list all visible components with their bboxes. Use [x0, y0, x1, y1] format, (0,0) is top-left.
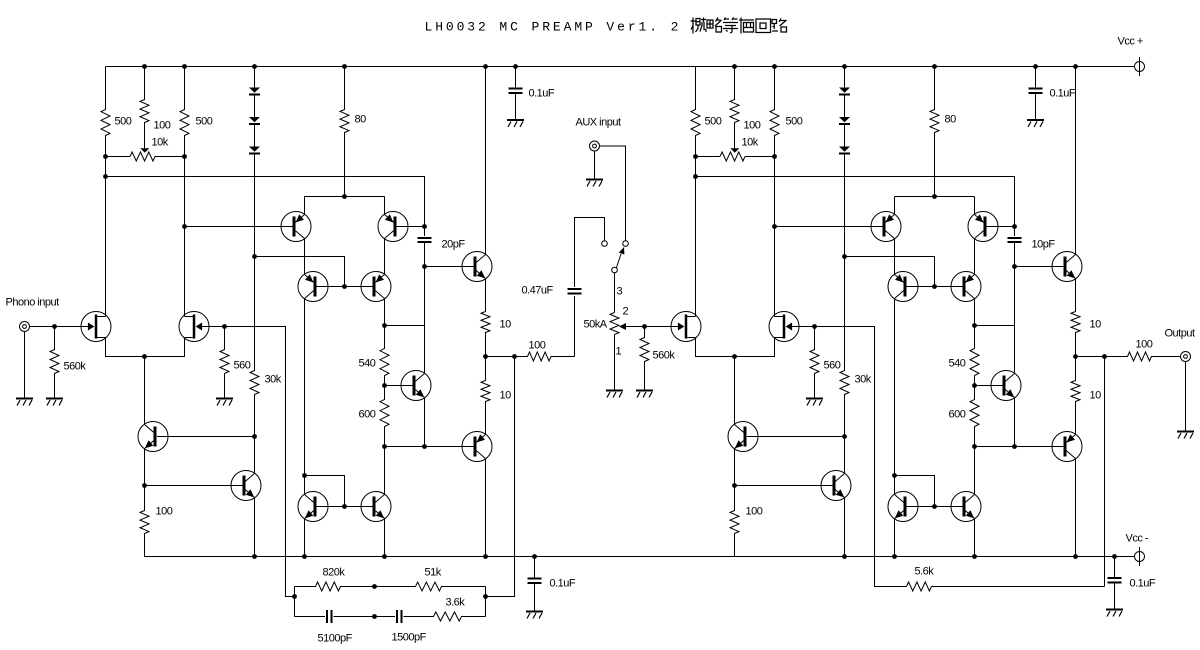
node T5T6 base (R)	[932, 504, 937, 509]
ground (aux)	[586, 180, 603, 187]
node rail-cap top (L)	[513, 64, 518, 69]
label 0.1uF top R	[1050, 88, 1076, 100]
label 560 (L)	[234, 360, 251, 372]
node 80-cluster (R)	[932, 194, 937, 199]
node 540 top (L)	[382, 323, 387, 328]
svg-text:100: 100	[154, 120, 171, 132]
wire T2-T4 (R)	[974, 239, 976, 275]
ground (0.1uF bottom L)	[526, 612, 543, 619]
svg-text:1500pF: 1500pF	[392, 632, 427, 644]
wire base link (R)	[895, 476, 935, 507]
wire T3 base (R)	[907, 286, 935, 288]
node rail-500 (R)	[732, 64, 737, 69]
label 10 upper (L)	[500, 319, 512, 331]
wire aux to switch	[600, 146, 626, 241]
wire wiper to J3	[645, 326, 680, 328]
resistor 560 (R)	[810, 327, 819, 398]
terminal Vcc+	[1135, 57, 1145, 76]
wire 0.1uF top (L)	[515, 67, 517, 120]
label Phono input	[6, 297, 60, 309]
wire T3 base (L)	[317, 286, 345, 288]
wire T5 base (R)	[907, 506, 935, 508]
svg-text:100: 100	[746, 506, 763, 518]
wire 5100pF leads	[295, 616, 375, 618]
resistor 80 (R)	[930, 67, 939, 197]
capacitor 0.1uF top (R)	[1029, 89, 1043, 94]
wire J2 drain (L)	[184, 157, 186, 317]
wire aux gnd	[594, 151, 596, 179]
wire T5 collector (L)	[304, 476, 306, 495]
node tail (L)	[142, 354, 147, 359]
transistor Q9 output pnp (L)	[462, 432, 492, 462]
label 5100pF	[318, 633, 353, 645]
switch contact B	[623, 241, 629, 247]
ground (0.1uF top L)	[507, 120, 524, 127]
label 560k phono	[64, 361, 87, 373]
node 600 bottom (L)	[382, 444, 387, 449]
wire phono-gate	[30, 326, 89, 328]
resistor 560 (L)	[220, 327, 229, 398]
switch pole C	[612, 267, 618, 273]
wire 1500pF lead	[375, 616, 396, 618]
resistor 5.6k	[907, 582, 1105, 591]
wire 0.1uF bottom (L)	[534, 557, 536, 611]
node T6e-rail (R)	[972, 554, 977, 559]
wire out to pot (L)	[486, 352, 575, 361]
resistor 100 (L bottom)	[140, 486, 149, 557]
pot wiper arrow	[619, 323, 645, 330]
wire T2 emitter (L)	[384, 197, 386, 215]
transistor T6 npn (R)	[951, 492, 981, 522]
resistor 500 (L right)	[180, 67, 189, 157]
wire T5 emitter (L)	[304, 519, 306, 557]
node J2gate-560	[222, 324, 227, 329]
svg-text:10: 10	[500, 319, 512, 331]
node T3T4 base (L)	[342, 284, 347, 289]
node pot-right (L)	[182, 154, 187, 159]
wire comp cap leads (L)	[424, 227, 426, 267]
label 500 left (L)	[115, 116, 132, 128]
svg-text:600: 600	[949, 409, 966, 421]
label Vcc+	[1118, 36, 1143, 48]
svg-text:500: 500	[786, 116, 803, 128]
label 1500pF	[392, 632, 427, 644]
svg-text:80: 80	[945, 114, 957, 126]
node T3T4 base (R)	[932, 284, 937, 289]
label 0.47uF	[522, 285, 554, 297]
label 100 bottom (R)	[746, 506, 763, 518]
node drain-rail (R)	[693, 174, 698, 179]
node rail-diode (L)	[252, 64, 257, 69]
wire T5 emitter (R)	[894, 519, 896, 557]
switch contact A	[602, 241, 608, 247]
wire top Vcc+ rail	[106, 66, 1135, 68]
wire Q9 base (L)	[385, 446, 474, 448]
svg-text:10pF: 10pF	[1032, 239, 1056, 251]
svg-text:560k: 560k	[64, 361, 87, 373]
wire fb tap (L)	[486, 357, 515, 597]
transistor Q1 current source (L)	[138, 422, 168, 452]
resistor 500 (R right)	[770, 67, 779, 157]
transistor Q7 vas (L)	[401, 371, 431, 401]
terminal Vcc-	[1135, 547, 1145, 566]
svg-text:30k: 30k	[855, 374, 872, 386]
node out-tap (R)	[1102, 354, 1107, 359]
node output (R)	[1073, 354, 1078, 359]
label 10 upper (R)	[1090, 319, 1102, 331]
transistor Q8 output npn (R)	[1052, 252, 1082, 282]
wire T2 base (L)	[397, 226, 425, 228]
ground (560 R)	[806, 399, 823, 406]
wire J1 drain (L)	[105, 157, 107, 317]
label pin 3	[617, 286, 623, 298]
node 80-cluster (L)	[342, 194, 347, 199]
wire Q8 base (L)	[425, 266, 474, 268]
wire 0.1uF bottom (R)	[1114, 557, 1116, 609]
label 80 (L)	[355, 114, 367, 126]
transistor T6 npn (L)	[361, 492, 391, 522]
resistor 600 (R)	[970, 386, 979, 447]
wire T6 collector (L)	[384, 447, 386, 495]
node rail-diode (R)	[842, 64, 847, 69]
wire Q8 collector (L)	[485, 67, 487, 255]
node pot-right (R)	[772, 154, 777, 159]
wire Q2 emitter (L)	[254, 498, 256, 557]
svg-text:100: 100	[744, 120, 761, 132]
label pin 2	[623, 306, 629, 318]
resistor 500 (L left)	[101, 67, 110, 157]
label 100 bottom (L)	[156, 506, 173, 518]
resistor 540 (R)	[970, 326, 979, 386]
svg-text:0.1uF: 0.1uF	[550, 578, 576, 590]
node out-tap (L)	[512, 354, 517, 359]
label 3.6k	[446, 597, 466, 609]
wire J1 drain (R)	[695, 157, 697, 317]
diode D1 (R)	[839, 88, 850, 95]
wire J1 source (R)	[696, 338, 775, 357]
svg-text:10k: 10k	[742, 137, 759, 149]
resistor 10 lower (L)	[481, 357, 490, 435]
node tail (R)	[732, 354, 737, 359]
svg-text:0.1uF: 0.1uF	[529, 88, 555, 100]
node rail-500b (L)	[182, 64, 187, 69]
svg-text:LH0032 MC PREAMP Ver1. 2: LH0032 MC PREAMP Ver1. 2	[425, 20, 682, 35]
svg-text:540: 540	[949, 358, 966, 370]
wire diode column (R)	[844, 67, 846, 257]
switch blade	[617, 247, 625, 268]
resistor 500 (R left)	[691, 67, 700, 157]
resistor 10 upper (R)	[1071, 279, 1080, 357]
label 600 (R)	[949, 409, 966, 421]
transistor Q2 mirror (L)	[231, 471, 261, 501]
svg-text:500: 500	[196, 116, 213, 128]
diode D2 (L)	[249, 117, 260, 124]
label 560k pot	[653, 350, 676, 362]
label 100 top (L)	[154, 120, 171, 132]
svg-text:820k: 820k	[323, 567, 346, 579]
resistor 10 lower (R)	[1071, 357, 1080, 435]
node T5e-rail (R)	[892, 554, 897, 559]
svg-text:5100pF: 5100pF	[318, 633, 353, 645]
wire Q2 base (L)	[145, 485, 243, 487]
svg-text:Phono input: Phono input	[6, 297, 60, 309]
wire T4 base (L)	[345, 286, 373, 288]
potentiometer 50kA body	[610, 313, 619, 335]
wire J4 gate (R)	[791, 326, 815, 328]
label 500 right (R)	[786, 116, 803, 128]
node Q1base-30k (R)	[842, 434, 847, 439]
transistor Q7 vas (R)	[991, 371, 1021, 401]
wire J1 source (L)	[106, 338, 185, 357]
resistor 30k (R)	[840, 257, 849, 437]
label 10k (R)	[742, 137, 759, 149]
node T5 coll link (R)	[892, 473, 897, 478]
wire Q2 emitter (R)	[844, 498, 846, 557]
wire cluster top (R)	[895, 196, 975, 198]
svg-text:10: 10	[1090, 319, 1102, 331]
wire Q9 base (R)	[975, 446, 1064, 448]
wire T6 collector (R)	[974, 447, 976, 495]
label 540 (R)	[949, 358, 966, 370]
node pot-left (L)	[103, 154, 108, 159]
wire T4 collector (L)	[384, 299, 386, 326]
wire tail down (L)	[144, 357, 146, 425]
wire T3 collector (R)	[894, 299, 896, 476]
node J4gate-560 (R)	[812, 324, 817, 329]
ground (560 L)	[216, 399, 233, 406]
label Vcc-	[1126, 533, 1149, 545]
ground (output)	[1177, 432, 1194, 439]
node T5T6 base (L)	[342, 504, 347, 509]
node output (L)	[483, 354, 488, 359]
svg-text:10k: 10k	[152, 137, 169, 149]
resistor 100 (R top)	[730, 67, 739, 149]
wire tail down (R)	[734, 357, 736, 425]
node J2 drain-base (L)	[182, 224, 187, 229]
wire Q8 base (R)	[1015, 266, 1064, 268]
potentiometer 10k (R)	[696, 148, 775, 161]
svg-text:100: 100	[529, 340, 546, 352]
wire T6 emitter (R)	[974, 519, 976, 557]
wire Q2 base (R)	[735, 485, 833, 487]
capacitor 0.47uF	[568, 289, 582, 294]
node comp-bottom (L)	[422, 264, 427, 269]
node T6e-rail (L)	[382, 554, 387, 559]
svg-text:560: 560	[234, 360, 251, 372]
node rail-cap bottom (R)	[1112, 554, 1117, 559]
resistor 10 upper (L)	[481, 279, 490, 357]
wire base link (L)	[305, 476, 345, 507]
wire T5 base (L)	[317, 506, 345, 508]
potentiometer 10k (L)	[106, 148, 185, 161]
wire Q1 emitter (L)	[144, 449, 146, 486]
wire T1 emitter (L)	[304, 197, 306, 215]
node 540 top (R)	[972, 323, 977, 328]
wire network right edge	[485, 587, 487, 617]
resistor 560k (phono)	[50, 327, 59, 398]
label 100 out	[1136, 339, 1153, 351]
wire phono jack down	[24, 332, 26, 398]
wire diode column (L)	[254, 67, 256, 257]
node rail-500 (L)	[142, 64, 147, 69]
wire J2 drain (R)	[774, 157, 776, 317]
wire Q1 emitter (R)	[734, 449, 736, 486]
transistor Q8 output npn (L)	[462, 252, 492, 282]
node Q9c-rail (L)	[483, 554, 488, 559]
wire Q7 base (R)	[975, 385, 1003, 387]
wire Q2 collector (R)	[844, 437, 846, 474]
transistor T1 pnp (L)	[281, 212, 311, 242]
label 500 left (R)	[705, 116, 722, 128]
transistor T2 pnp (R)	[968, 212, 998, 242]
resistor 100 (L top)	[140, 67, 149, 149]
svg-text:560: 560	[824, 360, 841, 372]
node fb right	[483, 594, 488, 599]
node Q1e-Q2b (L)	[142, 483, 147, 488]
wire bottom Vcc- rail	[145, 556, 1135, 558]
transistor Q1 current source (R)	[728, 422, 758, 452]
svg-text:0.1uF: 0.1uF	[1050, 88, 1076, 100]
node 820k-51k	[372, 584, 377, 589]
node phono-560k	[52, 324, 57, 329]
label 540 (L)	[359, 358, 376, 370]
capacitor 0.1uF bottom (L)	[528, 579, 542, 584]
node diode-30k (R)	[842, 254, 847, 259]
wire Q9 collector (L)	[485, 459, 487, 557]
diode D3 (L)	[249, 147, 260, 154]
label 820k	[323, 567, 346, 579]
svg-text:AUX input: AUX input	[576, 117, 621, 129]
transistor Q2 mirror (R)	[821, 471, 851, 501]
svg-text:51k: 51k	[425, 567, 442, 579]
wire gate feedback (R)	[815, 327, 907, 587]
wire T6 base (R)	[935, 506, 963, 508]
JFET J2 (L)	[179, 312, 209, 342]
svg-text:600: 600	[359, 409, 376, 421]
JFET J2 (R)	[769, 312, 799, 342]
wire T4 base (R)	[935, 286, 963, 288]
JFET J1 (R)	[671, 312, 701, 342]
svg-text:100: 100	[1136, 339, 1153, 351]
transistor T2 pnp (L)	[378, 212, 408, 242]
diode D2 (R)	[839, 117, 850, 124]
ground (pot)	[606, 391, 623, 398]
label 100 top (R)	[744, 120, 761, 132]
svg-text:3: 3	[617, 286, 623, 298]
node 540-600 (L)	[382, 383, 387, 388]
wire comp cap leads (R)	[1014, 227, 1016, 267]
svg-text:500: 500	[115, 116, 132, 128]
svg-text:80: 80	[355, 114, 367, 126]
wire T2-T4 (L)	[384, 239, 386, 275]
wire T2 emitter (R)	[974, 197, 976, 215]
wire Q8 collector (R)	[1075, 67, 1077, 255]
svg-text:10: 10	[500, 390, 512, 402]
label 51k	[425, 567, 442, 579]
wire cluster top (L)	[305, 196, 385, 198]
resistor 820k	[295, 582, 375, 591]
wire T6 base (L)	[345, 506, 373, 508]
transistor T3 pnp (R)	[888, 272, 918, 302]
node rail-out (R)	[1073, 64, 1078, 69]
label 560 (R)	[824, 360, 841, 372]
svg-text:Output: Output	[1165, 328, 1195, 340]
node comp-top (L)	[422, 224, 427, 229]
node Q1base-30k (L)	[252, 434, 257, 439]
svg-text:30k: 30k	[265, 374, 282, 386]
svg-text:0.1uF: 0.1uF	[1130, 578, 1156, 590]
label pin 1	[616, 346, 622, 358]
transistor T4 pnp (L)	[361, 272, 391, 302]
svg-text:3.6k: 3.6k	[446, 597, 466, 609]
capacitor 20pF (L)	[418, 238, 432, 242]
svg-text:560k: 560k	[653, 350, 676, 362]
wire diode-bases (R)	[845, 257, 935, 287]
label 10k (L)	[152, 137, 169, 149]
title kanji GAI	[691, 18, 707, 34]
node Q1e-Q2b (R)	[732, 483, 737, 488]
resistor 540 (L)	[380, 326, 389, 386]
wire T6 emitter (L)	[384, 519, 386, 557]
wire Q1 base (R)	[747, 436, 845, 438]
ground (phono jack)	[16, 399, 33, 406]
wire out to jack (R)	[1076, 352, 1181, 361]
capacitor 5100pF	[327, 610, 332, 623]
node wiper-560k	[642, 324, 647, 329]
node T5e-rail (L)	[302, 554, 307, 559]
label 80 (R)	[945, 114, 957, 126]
transistor T4 pnp (R)	[951, 272, 981, 302]
node Q7e (R)	[1012, 444, 1017, 449]
wire T3 collector (L)	[304, 299, 306, 476]
svg-text:500: 500	[705, 116, 722, 128]
label 0.1uF top L	[529, 88, 555, 100]
label 600 (L)	[359, 409, 376, 421]
wire pole to pot	[614, 273, 616, 313]
label 0.1uF bottom R	[1130, 578, 1156, 590]
JFET J1 (L)	[81, 312, 111, 342]
label 10 lower (R)	[1090, 390, 1102, 402]
wire Q9 collector (R)	[1075, 459, 1077, 557]
node rail-cap top (R)	[1033, 64, 1038, 69]
node Q2e-rail (R)	[842, 554, 847, 559]
diode D1 (L)	[249, 88, 260, 95]
label 20pF (L)	[442, 239, 466, 251]
node rail-500b (R)	[772, 64, 777, 69]
terminal Output	[1181, 352, 1191, 362]
label 500 right (L)	[196, 116, 213, 128]
capacitor 0.1uF bottom (R)	[1108, 578, 1122, 583]
label AUX input	[576, 117, 621, 129]
label 0.1uF bottom L	[550, 578, 576, 590]
svg-text:Vcc -: Vcc -	[1126, 533, 1149, 545]
svg-text:10: 10	[1090, 390, 1102, 402]
node J2 drain-base (R)	[772, 224, 777, 229]
wire T4c-vas (L)	[385, 325, 425, 327]
wire 0.47uF riser	[574, 296, 576, 357]
title kanji KA	[739, 18, 754, 34]
resistor 3.6k	[404, 612, 486, 621]
wire Q7 emitter (R)	[1014, 398, 1016, 447]
node rail-cap bottom (L)	[532, 554, 537, 559]
wire T1 base (L)	[185, 226, 293, 228]
resistor 30k (L)	[250, 257, 259, 437]
wire Q7 base (L)	[385, 385, 413, 387]
resistor 100 (R bottom)	[730, 486, 739, 557]
resistor 600 (L)	[380, 386, 389, 447]
svg-text:540: 540	[359, 358, 376, 370]
wire Q1 base (L)	[157, 436, 255, 438]
